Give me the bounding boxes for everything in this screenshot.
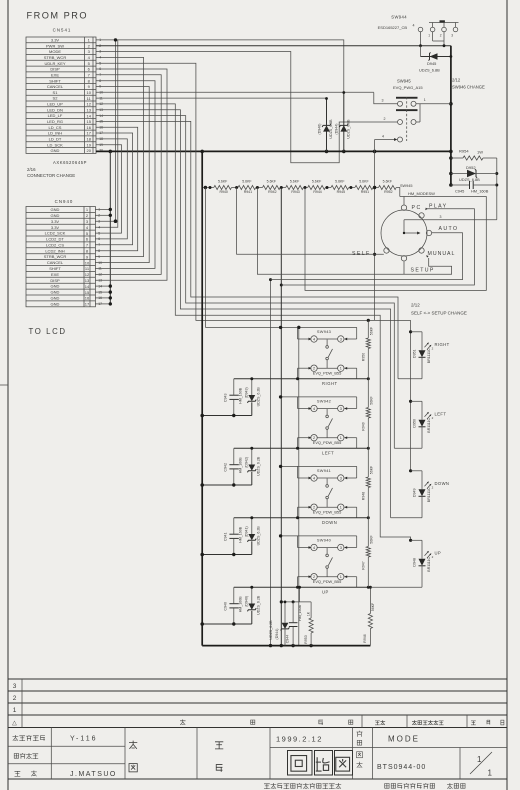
- wire SW943 common bottom: [234, 378, 368, 380]
- wire SETUP riser: [403, 261, 405, 274]
- wire AUTO net: [270, 280, 272, 646]
- svg-text:GND: GND: [51, 207, 60, 212]
- svg-text:Y-116: Y-116: [70, 736, 98, 743]
- svg-text:15: 15: [86, 119, 91, 124]
- wire C940 ground return: [202, 623, 252, 625]
- wire GND pin20 bus: [96, 150, 451, 152]
- svg-text:2: 2: [88, 43, 91, 48]
- wire CN940 pin15 GND stub: [95, 291, 110, 293]
- svg-text:(D941): (D941): [244, 526, 248, 537]
- svg-text:2: 2: [384, 117, 386, 121]
- svg-text:12: 12: [85, 272, 90, 277]
- svg-text:EXE: EXE: [51, 272, 59, 277]
- wire ladder segment: [256, 187, 263, 189]
- svg-text:SW940: SW940: [317, 538, 332, 543]
- resistor R943 5.6KF: [286, 179, 304, 194]
- svg-text:EVQ_PDW_B55: EVQ_PDW_B55: [313, 440, 342, 445]
- capacitor C942 HM_160B: [223, 448, 242, 485]
- svg-text:13: 13: [85, 278, 90, 283]
- svg-text:R950: R950: [361, 353, 365, 361]
- svg-text:BTS0944-00: BTS0944-00: [377, 764, 426, 771]
- svg-text:SW941: SW941: [317, 468, 331, 473]
- svg-text:UDZS_6.2B: UDZS_6.2B: [256, 526, 260, 546]
- wire CN541 pin19 to CN940 pin5: [95, 145, 121, 233]
- svg-text:CONNECTOR CHANGE: CONNECTOR CHANGE: [27, 173, 75, 178]
- svg-text:C940: C940: [223, 602, 227, 611]
- svg-text:LEFT: LEFT: [322, 450, 334, 455]
- diode D944 zener UDZS_6.2B lower: [284, 602, 286, 623]
- svg-text:BR1111C: BR1111C: [427, 348, 431, 363]
- diode D944 zener: [343, 93, 345, 152]
- capacitor C945 HM_160B: [451, 181, 497, 194]
- wire ground rail: [201, 151, 203, 645]
- resistor R948 56KF: [361, 448, 373, 518]
- svg-text:SW945: SW945: [400, 184, 412, 188]
- text drawing number label: [357, 752, 363, 758]
- wire snubber bus: [281, 601, 311, 603]
- svg-text:56KF: 56KF: [369, 466, 373, 474]
- svg-text:D952: D952: [466, 165, 476, 170]
- svg-text:PWR_SW: PWR_SW: [46, 43, 64, 48]
- svg-text:5.6KF: 5.6KF: [383, 179, 392, 183]
- wire ladder segment: [232, 187, 239, 189]
- page border right: [506, 0, 508, 790]
- svg-text:SW945: SW945: [397, 79, 411, 84]
- svg-text:SETUP: SETUP: [411, 268, 435, 274]
- svg-text:BR1111C: BR1111C: [427, 557, 431, 572]
- resistor R941 5.6KF: [238, 179, 256, 194]
- resistor R951 5.6KF: [355, 179, 373, 194]
- svg-text:1W: 1W: [477, 150, 483, 155]
- svg-text:TO LCD: TO LCD: [29, 327, 67, 336]
- svg-text:UP: UP: [435, 551, 442, 556]
- LED D950 BR1111C LEFT: [409, 400, 446, 449]
- svg-text:LEFT: LEFT: [435, 412, 447, 417]
- svg-text:LCD2_DT: LCD2_DT: [46, 237, 64, 242]
- svg-text:4: 4: [313, 407, 315, 411]
- svg-text:UDLR_KEY: UDLR_KEY: [44, 61, 65, 66]
- wire CN940 pin17 GND stub: [95, 303, 110, 305]
- capacitor C944 HM_160B lower: [286, 602, 303, 646]
- wire CN541 pin8 to CN940 pin11: [95, 81, 155, 269]
- wire 3.3V branch to CN940 pin4: [95, 40, 117, 227]
- svg-text:3: 3: [451, 33, 453, 37]
- LED D949 BR1111C DOWN: [409, 469, 449, 518]
- svg-text:C941: C941: [223, 533, 227, 542]
- svg-text:20: 20: [86, 148, 91, 153]
- svg-text:C942: C942: [223, 463, 227, 472]
- svg-text:AUTO: AUTO: [439, 226, 459, 232]
- svg-text:17: 17: [85, 302, 90, 307]
- svg-text:4: 4: [313, 477, 315, 481]
- LED D948 BR1111C UP: [409, 539, 441, 588]
- svg-text:CN940: CN940: [55, 199, 74, 204]
- svg-text:SELF: SELF: [352, 251, 371, 257]
- svg-text:7: 7: [88, 73, 91, 78]
- wire C941 ground return: [202, 554, 252, 556]
- svg-text:LCD2_INH: LCD2_INH: [45, 248, 64, 253]
- svg-text:1: 1: [86, 207, 89, 212]
- svg-text:HM_160B: HM_160B: [238, 387, 242, 404]
- svg-text:3: 3: [340, 338, 342, 342]
- svg-text:UDZS_6.8B: UDZS_6.8B: [329, 119, 333, 139]
- svg-text:EVQ_PDW_B55: EVQ_PDW_B55: [313, 510, 342, 515]
- svg-text:2: 2: [432, 485, 434, 489]
- svg-text:2: 2: [440, 33, 442, 37]
- resistor R947 56KF: [361, 518, 373, 588]
- svg-text:2: 2: [432, 416, 434, 420]
- wire CN541 pin6 to CN940 pin13: [95, 69, 167, 280]
- svg-text:UDZS_6.2B: UDZS_6.2B: [269, 620, 273, 640]
- text approval: [215, 742, 223, 749]
- svg-text:C944: C944: [286, 635, 290, 644]
- text name label: [357, 731, 363, 737]
- svg-text:3: 3: [340, 546, 342, 550]
- svg-text:LCD2_SCK: LCD2_SCK: [45, 231, 66, 236]
- wire ladder segment: [325, 187, 331, 189]
- svg-text:11: 11: [87, 96, 92, 101]
- svg-text:5.6KF: 5.6KF: [242, 179, 251, 183]
- wire PC net: [305, 188, 486, 291]
- resistor R946 56KF: [363, 586, 375, 646]
- wire LED anode bus: [410, 320, 412, 470]
- wire PWR_SW net vertical: [450, 46, 452, 185]
- switch SW940 UP: [279, 534, 357, 594]
- wire C942 ground return: [202, 484, 252, 486]
- svg-text:R943: R943: [291, 190, 299, 194]
- resistor R942 5.6KF: [263, 179, 281, 194]
- text person in charge: [15, 771, 21, 776]
- wire PLAY net: [280, 188, 282, 646]
- svg-text:3: 3: [86, 219, 89, 224]
- diode D945 zener: [421, 46, 451, 61]
- svg-text:2: 2: [432, 555, 434, 559]
- svg-text:EVQ_PDW_B55: EVQ_PDW_B55: [313, 579, 342, 584]
- wire PWR_SW pin2: [96, 45, 451, 47]
- svg-text:5.6KF: 5.6KF: [359, 179, 368, 183]
- title block frame: [8, 728, 507, 780]
- svg-text:D951: D951: [413, 350, 417, 359]
- svg-text:5: 5: [88, 61, 91, 66]
- svg-text:1K: 1K: [307, 611, 311, 616]
- svg-text:LED_RG: LED_RG: [47, 119, 63, 124]
- svg-text:RIGHT: RIGHT: [322, 381, 338, 386]
- svg-text:C945: C945: [455, 189, 464, 194]
- wire CN541 pin15 LED drive: [96, 121, 398, 378]
- svg-text:3: 3: [382, 99, 384, 103]
- svg-text:1: 1: [13, 707, 17, 714]
- text company: [264, 784, 270, 789]
- connector CN940: [26, 207, 102, 307]
- svg-text:4: 4: [88, 55, 91, 60]
- svg-text:2: 2: [432, 346, 434, 350]
- svg-text:MODE: MODE: [388, 735, 420, 744]
- svg-text:UDZS_6.8B: UDZS_6.8B: [347, 119, 351, 139]
- svg-text:HM_160B: HM_160B: [298, 604, 302, 621]
- wire GND vertical to CN940: [109, 151, 111, 304]
- svg-text:2/12: 2/12: [411, 303, 420, 308]
- svg-text:HM_160B: HM_160B: [238, 596, 242, 613]
- svg-text:STRB_WCR: STRB_WCR: [44, 55, 67, 60]
- svg-text:J.MATSUO: J.MATSUO: [70, 771, 117, 778]
- wire CN541 pin4 to CN940 pin9: [95, 57, 143, 256]
- svg-text:HM_160B: HM_160B: [238, 457, 242, 474]
- wire ladder right end to PC: [396, 188, 400, 197]
- diode D941 zener UDZS_6.2B: [251, 518, 253, 535]
- resistor R940 5.6KF: [214, 179, 232, 194]
- svg-text:2/12: 2/12: [452, 78, 461, 83]
- text development code: [13, 735, 19, 741]
- wire vertical mid bus B: [298, 327, 300, 645]
- svg-text:SELF <-> SETUP CHANGE: SELF <-> SETUP CHANGE: [411, 311, 467, 316]
- wire resistor ladder bus: [202, 187, 214, 189]
- svg-text:HM_MODESW: HM_MODESW: [408, 191, 435, 196]
- wire S1 to SW945 pin3: [374, 93, 398, 104]
- svg-text:1: 1: [424, 98, 426, 102]
- wire CN541 pin13 LED drive: [96, 110, 391, 518]
- svg-text:HM_160B: HM_160B: [471, 189, 489, 194]
- svg-text:R949: R949: [361, 422, 365, 430]
- svg-text:STRB_WCR: STRB_WCR: [44, 254, 67, 259]
- switch SW941 DOWN: [279, 465, 357, 525]
- svg-text:SHIFT: SHIFT: [49, 266, 61, 271]
- svg-text:3.3V: 3.3V: [51, 219, 60, 224]
- svg-text:1: 1: [428, 33, 430, 37]
- wire CN541 pin5 UDLR_KEY to LED anode bus: [96, 63, 411, 320]
- svg-text:BR1111C: BR1111C: [427, 418, 431, 433]
- wire SW945 pin2 row: [416, 121, 420, 123]
- stamp circuit diagram: [288, 751, 353, 776]
- svg-text:GND: GND: [51, 290, 60, 295]
- svg-text:R952: R952: [384, 190, 392, 194]
- svg-text:8: 8: [86, 249, 89, 254]
- wire PC pin: [403, 197, 405, 206]
- svg-text:R945: R945: [337, 190, 345, 194]
- svg-text:CN541: CN541: [53, 28, 72, 33]
- wire SW941 common bottom: [234, 517, 368, 519]
- svg-text:5: 5: [86, 231, 89, 236]
- wire CN541 pin18 to CN940 pin6: [95, 139, 127, 239]
- wire CN541 pin12 LED_UP drive: [96, 104, 411, 540]
- wire S1 pin10: [96, 91, 374, 93]
- svg-text:16: 16: [86, 125, 91, 130]
- wire GND to SW945 common: [374, 140, 376, 321]
- capacitor C941 HM_160B: [223, 518, 242, 555]
- svg-text:5.6KF: 5.6KF: [312, 179, 321, 183]
- svg-text:C943: C943: [223, 394, 227, 403]
- wire CN940 pin1 GND stub: [95, 208, 110, 210]
- text part number: [14, 754, 18, 759]
- svg-text:(D940): (D940): [244, 596, 248, 607]
- svg-text:EXE: EXE: [51, 72, 59, 77]
- wire UP block to snubber: [299, 587, 301, 602]
- svg-text:10: 10: [86, 90, 91, 95]
- svg-text:S2: S2: [53, 96, 59, 101]
- resistor R944 5.6KF: [308, 179, 326, 194]
- svg-text:DOWN: DOWN: [435, 481, 450, 486]
- switch SW943 RIGHT: [205, 326, 356, 386]
- wire CN541 pin17 to CN940 pin7: [95, 133, 132, 245]
- svg-text:SW946 CHANGE: SW946 CHANGE: [452, 84, 485, 89]
- resistor R945 5.6KF: [331, 179, 349, 194]
- wire D950 cathode return: [394, 447, 422, 449]
- svg-text:LED_DN: LED_DN: [47, 107, 63, 112]
- rotary switch SW945 HM_MODESW: [381, 205, 497, 261]
- svg-text:R942: R942: [268, 190, 276, 194]
- left edge tick mark: [0, 384, 8, 386]
- svg-text:EVQ_PWG_A15: EVQ_PWG_A15: [393, 85, 423, 90]
- svg-text:2/16: 2/16: [27, 167, 36, 172]
- svg-text:R954: R954: [459, 149, 469, 154]
- svg-text:DISP: DISP: [50, 67, 60, 72]
- svg-text:1: 1: [88, 38, 91, 43]
- svg-text:UP: UP: [322, 589, 329, 594]
- svg-text:DISP: DISP: [50, 278, 60, 283]
- svg-text:LD_INH: LD_INH: [48, 131, 62, 136]
- resistor R952 5.6KF: [379, 179, 397, 194]
- svg-text:PC: PC: [412, 205, 422, 211]
- capacitor C940 HM_160B: [223, 587, 242, 624]
- svg-text:14: 14: [86, 113, 91, 118]
- diode D940 zener UDZS_6.2B: [251, 587, 253, 604]
- wire SW940 common bottom: [234, 586, 368, 588]
- svg-text:4: 4: [313, 338, 315, 342]
- svg-text:19: 19: [86, 142, 91, 147]
- svg-text:56KF: 56KF: [371, 603, 375, 611]
- wire SW942 common bottom: [234, 447, 368, 449]
- svg-text:EVQ_PDW_B55: EVQ_PDW_B55: [313, 371, 342, 376]
- svg-text:ESD165227_CB: ESD165227_CB: [378, 25, 408, 30]
- svg-text:3.3V: 3.3V: [51, 38, 60, 43]
- svg-text:56KF: 56KF: [369, 396, 373, 404]
- svg-text:3.3V: 3.3V: [51, 225, 60, 230]
- svg-text:LCD2_CS: LCD2_CS: [46, 242, 64, 247]
- svg-text:1: 1: [488, 769, 493, 778]
- svg-text:3: 3: [88, 49, 91, 54]
- svg-text:R941: R941: [244, 190, 252, 194]
- svg-text:3: 3: [440, 215, 442, 219]
- svg-text:GND: GND: [51, 148, 60, 153]
- svg-text:3: 3: [13, 683, 17, 690]
- svg-text:8: 8: [88, 78, 91, 83]
- diode D943 zener UDZS_6.2B: [251, 379, 253, 396]
- wire D949 cathode return: [391, 517, 422, 519]
- wire SW945 pin1: [416, 103, 451, 105]
- svg-text:(D944): (D944): [335, 124, 339, 135]
- svg-text:1: 1: [477, 755, 482, 764]
- svg-text:SHIFT: SHIFT: [49, 78, 61, 83]
- svg-text:FROM PRO: FROM PRO: [27, 10, 89, 20]
- svg-text:GND: GND: [51, 284, 60, 289]
- svg-text:17: 17: [86, 131, 91, 136]
- svg-text:13: 13: [86, 108, 91, 113]
- svg-text:RIGHT: RIGHT: [435, 342, 450, 347]
- svg-text:LED_LF: LED_LF: [48, 113, 63, 118]
- svg-text:R946: R946: [363, 634, 367, 642]
- svg-text:R944: R944: [313, 190, 321, 194]
- wire D948 cathode return: [370, 586, 422, 588]
- svg-text:3: 3: [340, 407, 342, 411]
- diode D952 zener: [451, 165, 497, 182]
- svg-text:10: 10: [85, 260, 90, 265]
- svg-text:MODE: MODE: [49, 49, 61, 54]
- svg-text:9: 9: [86, 254, 89, 259]
- svg-text:18: 18: [86, 137, 91, 142]
- wire CN541 pin16 to CN940 pin8: [95, 127, 137, 251]
- revision table: [8, 679, 507, 728]
- svg-text:MUNUAL: MUNUAL: [428, 251, 456, 257]
- wire ladder segment: [349, 187, 355, 189]
- svg-text:56KF: 56KF: [369, 327, 373, 335]
- svg-text:56KF: 56KF: [369, 535, 373, 543]
- svg-text:1999.2.12: 1999.2.12: [276, 735, 323, 744]
- svg-text:LED_UP: LED_UP: [47, 102, 63, 107]
- LED D951 BR1111C RIGHT: [409, 330, 450, 379]
- svg-text:SW943: SW943: [317, 329, 331, 334]
- svg-text:R947: R947: [361, 561, 365, 569]
- svg-text:SW944: SW944: [391, 15, 407, 20]
- wire CN940 pin14 GND stub: [95, 285, 110, 287]
- svg-text:GND: GND: [51, 213, 60, 218]
- diode D946 zener: [326, 99, 328, 152]
- resistor R950 56KF: [361, 321, 373, 379]
- page border left: [7, 0, 9, 790]
- svg-text:5.6KF: 5.6KF: [267, 179, 276, 183]
- wire ladder segment: [373, 187, 379, 189]
- wire C943 ground return: [202, 415, 252, 417]
- svg-text:PLAY: PLAY: [429, 204, 447, 210]
- svg-text:6: 6: [88, 67, 91, 72]
- svg-text:D948: D948: [413, 558, 417, 567]
- svg-text:14: 14: [85, 284, 90, 289]
- wire ladder segment: [280, 187, 286, 189]
- svg-text:LD_DT: LD_DT: [49, 137, 62, 142]
- wire D951 cathode return: [398, 378, 422, 380]
- text check: [129, 741, 137, 749]
- svg-text:11: 11: [85, 266, 90, 271]
- svg-text:5.6KF: 5.6KF: [218, 179, 227, 183]
- wire CN541 pin9 to CN940 pin10: [95, 87, 149, 263]
- wire SELF net: [237, 188, 384, 255]
- svg-text:3: 3: [340, 477, 342, 481]
- svg-text:(D942): (D942): [244, 457, 248, 468]
- svg-text:CANCEL: CANCEL: [47, 260, 64, 265]
- svg-text:S1: S1: [53, 90, 59, 95]
- wire ladder segment: [303, 187, 307, 189]
- svg-text:UDZS_6.2B: UDZS_6.2B: [256, 595, 260, 615]
- svg-text:5.6KF: 5.6KF: [290, 179, 299, 183]
- wire 3.3V branch to CN940 pin3: [115, 40, 117, 221]
- svg-text:15: 15: [85, 290, 90, 295]
- svg-text:UDZS_6.2B: UDZS_6.2B: [256, 387, 260, 407]
- svg-text:BR1111C: BR1111C: [427, 487, 431, 502]
- svg-text:2: 2: [13, 695, 17, 702]
- resistor R953 1K: [304, 602, 313, 646]
- svg-text:4: 4: [413, 24, 415, 28]
- svg-text:AXK6520645P: AXK6520645P: [53, 160, 87, 165]
- svg-text:(D946): (D946): [317, 124, 321, 135]
- svg-text:4: 4: [313, 546, 315, 550]
- svg-text:LD_SCK: LD_SCK: [47, 142, 63, 147]
- svg-text:D949: D949: [413, 489, 417, 498]
- svg-text:D945: D945: [427, 61, 436, 66]
- wire MODE pin3 to SW945 pin2: [96, 52, 397, 163]
- wire CN940 pin2 GND stub: [95, 214, 110, 216]
- svg-text:7: 7: [86, 243, 89, 248]
- wire SW945 bottom contact: [375, 139, 396, 141]
- wire bottom ground bus: [202, 645, 370, 647]
- wire S2 pin11: [96, 97, 327, 99]
